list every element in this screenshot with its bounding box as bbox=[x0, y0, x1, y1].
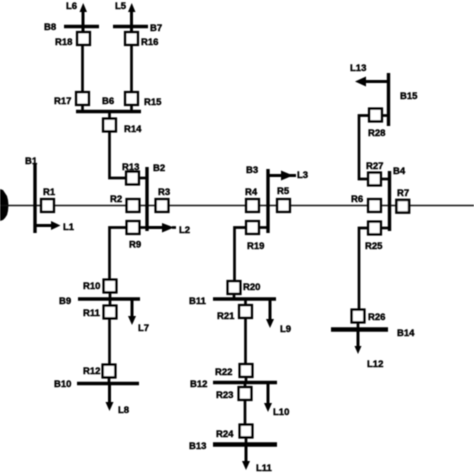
load L10 bbox=[264, 383, 289, 419]
svg-text:R6: R6 bbox=[351, 194, 363, 205]
wire R25 down to R26 bbox=[359, 228, 368, 310]
svg-text:R21: R21 bbox=[217, 311, 235, 322]
bus B4 bbox=[390, 166, 406, 231]
main feeder wire bbox=[0, 205, 474, 207]
wire R9 down to R10 bbox=[110, 228, 127, 280]
bus B12 bbox=[190, 379, 277, 390]
svg-text:R3: R3 bbox=[158, 187, 170, 198]
load L7 bbox=[128, 299, 149, 334]
wire B9 to R11 bbox=[109, 299, 112, 306]
wire R21 to R22 bbox=[244, 318, 247, 364]
svg-text:R28: R28 bbox=[368, 128, 385, 139]
resistor R16 bbox=[125, 32, 158, 48]
resistor R13 bbox=[122, 162, 139, 184]
wire R12 to bus B10 bbox=[108, 378, 111, 384]
resistor R12 bbox=[83, 365, 115, 378]
resistor R10 bbox=[83, 280, 116, 293]
bus B8 bbox=[44, 22, 99, 33]
svg-text:R13: R13 bbox=[122, 162, 139, 173]
resistor R6 bbox=[351, 194, 381, 212]
svg-text:R27: R27 bbox=[366, 161, 383, 172]
svg-text:L11: L11 bbox=[256, 463, 273, 474]
resistor R14 bbox=[103, 119, 142, 135]
resistor R1 bbox=[41, 187, 56, 212]
resistor R19 bbox=[246, 221, 264, 252]
svg-text:R14: R14 bbox=[124, 124, 142, 135]
svg-text:L10: L10 bbox=[273, 407, 289, 418]
resistor R5 bbox=[277, 186, 290, 212]
resistor R28 bbox=[368, 109, 385, 139]
svg-text:R9: R9 bbox=[129, 240, 141, 251]
svg-text:B8: B8 bbox=[44, 22, 56, 33]
svg-text:R24: R24 bbox=[216, 429, 234, 440]
resistor R17 bbox=[54, 92, 89, 107]
wire R27 to bus B4 bbox=[381, 178, 390, 181]
resistor R7 bbox=[396, 188, 409, 213]
resistor R21 bbox=[217, 305, 252, 322]
resistor R25 bbox=[365, 222, 383, 252]
load L2 bbox=[147, 223, 190, 236]
svg-text:R2: R2 bbox=[110, 194, 122, 205]
bus B13 bbox=[189, 441, 277, 452]
load L5 bbox=[115, 1, 136, 32]
svg-text:R7: R7 bbox=[397, 188, 409, 199]
bus B7 bbox=[113, 23, 162, 34]
svg-text:B15: B15 bbox=[400, 91, 418, 102]
bus B10 bbox=[54, 379, 139, 390]
svg-text:R19: R19 bbox=[247, 241, 264, 252]
svg-text:R4: R4 bbox=[245, 187, 258, 198]
svg-text:R25: R25 bbox=[365, 241, 383, 252]
resistor R26 bbox=[352, 310, 386, 323]
svg-text:B10: B10 bbox=[54, 379, 71, 390]
wire R17 to B6 bbox=[81, 105, 84, 112]
svg-text:B12: B12 bbox=[190, 379, 207, 390]
svg-text:L3: L3 bbox=[297, 170, 308, 181]
wire R20 to bus B11 bbox=[233, 294, 236, 299]
wire R11 to R12 bbox=[108, 319, 111, 365]
svg-text:L8: L8 bbox=[118, 405, 129, 416]
svg-text:L6: L6 bbox=[66, 1, 77, 12]
wire R24 to bus B13 bbox=[245, 438, 248, 445]
wire R14 down to R13 bbox=[110, 131, 127, 178]
svg-text:B13: B13 bbox=[189, 441, 206, 452]
svg-text:R1: R1 bbox=[43, 187, 56, 198]
svg-text:R22: R22 bbox=[215, 367, 232, 378]
wire R25 to bus B4 bbox=[381, 227, 390, 230]
resistor R18 bbox=[55, 32, 90, 48]
svg-text:R11: R11 bbox=[83, 308, 101, 319]
wire R27 up to R28 bbox=[359, 116, 369, 180]
svg-text:L9: L9 bbox=[280, 324, 291, 335]
load L9 bbox=[266, 299, 291, 335]
svg-text:L13: L13 bbox=[350, 63, 366, 74]
bus B2 bbox=[147, 163, 165, 231]
svg-text:R10: R10 bbox=[83, 281, 100, 292]
svg-text:R17: R17 bbox=[54, 96, 71, 107]
wire R18 to R17 bbox=[81, 45, 84, 92]
wire R14 to bus B6 bbox=[108, 111, 111, 119]
svg-text:L5: L5 bbox=[115, 1, 127, 12]
resistor R15 bbox=[125, 92, 162, 108]
resistor R9 bbox=[127, 221, 141, 250]
svg-text:B2: B2 bbox=[153, 163, 165, 174]
load L6 bbox=[66, 1, 87, 32]
wire R19 to bus B3 bbox=[259, 226, 268, 229]
svg-text:R18: R18 bbox=[55, 37, 72, 48]
svg-text:B9: B9 bbox=[59, 296, 71, 307]
svg-text:R5: R5 bbox=[277, 186, 290, 197]
load L3 bbox=[268, 170, 308, 181]
wire B11 to R21 bbox=[244, 299, 247, 305]
wire R23 to R24 bbox=[244, 400, 247, 425]
load L8 bbox=[106, 384, 130, 417]
wire B12 to R23 bbox=[244, 383, 247, 388]
svg-text:R26: R26 bbox=[368, 312, 385, 323]
load L11 bbox=[242, 445, 273, 474]
bus B15 bbox=[389, 73, 419, 126]
svg-text:R16: R16 bbox=[141, 37, 158, 48]
svg-text:B6: B6 bbox=[102, 96, 114, 107]
wire R10 to bus B9 bbox=[109, 293, 112, 300]
resistor R4 bbox=[245, 187, 259, 212]
resistor R24 bbox=[216, 425, 252, 440]
load L12 bbox=[355, 330, 384, 371]
wire R9 to bus B2 bbox=[140, 226, 148, 229]
svg-text:B14: B14 bbox=[397, 328, 415, 339]
svg-text:L12: L12 bbox=[367, 359, 383, 370]
resistor R11 bbox=[83, 306, 116, 319]
resistor R2 bbox=[110, 194, 139, 212]
bus B11 bbox=[189, 296, 276, 307]
bus B14 bbox=[331, 328, 415, 339]
resistor R27 bbox=[366, 161, 383, 185]
wire R13 to bus B2 bbox=[139, 177, 147, 180]
svg-text:B11: B11 bbox=[189, 296, 207, 307]
bus B6 bbox=[76, 96, 141, 112]
bus B3 bbox=[246, 165, 268, 233]
bus B9 bbox=[59, 296, 140, 307]
load L13 bbox=[350, 63, 389, 87]
svg-text:R23: R23 bbox=[216, 390, 233, 401]
svg-text:B7: B7 bbox=[150, 23, 162, 34]
load L1 bbox=[36, 221, 75, 233]
wire R16 to R15 bbox=[130, 45, 133, 92]
resistor R20 bbox=[228, 281, 261, 294]
svg-text:L1: L1 bbox=[63, 222, 75, 233]
svg-text:R15: R15 bbox=[144, 97, 162, 108]
wire R15 to B6 bbox=[130, 105, 133, 112]
resistor R3 bbox=[156, 187, 170, 212]
svg-text:R12: R12 bbox=[83, 366, 100, 377]
svg-text:B1: B1 bbox=[25, 156, 38, 167]
svg-text:B3: B3 bbox=[246, 165, 258, 176]
svg-text:B4: B4 bbox=[393, 166, 406, 177]
bus B1 bbox=[25, 156, 38, 233]
resistor R23 bbox=[216, 387, 251, 401]
wire R19 down to R20 bbox=[235, 228, 247, 282]
svg-text:L2: L2 bbox=[179, 225, 190, 236]
wire R26 to bus B14 bbox=[357, 323, 360, 330]
wire R28 to bus B15 bbox=[382, 114, 389, 117]
source generator bbox=[0, 189, 9, 221]
svg-text:R20: R20 bbox=[243, 282, 260, 293]
svg-text:L7: L7 bbox=[138, 323, 149, 334]
resistor R22 bbox=[215, 364, 252, 378]
wire R22 to bus B12 bbox=[245, 377, 248, 383]
